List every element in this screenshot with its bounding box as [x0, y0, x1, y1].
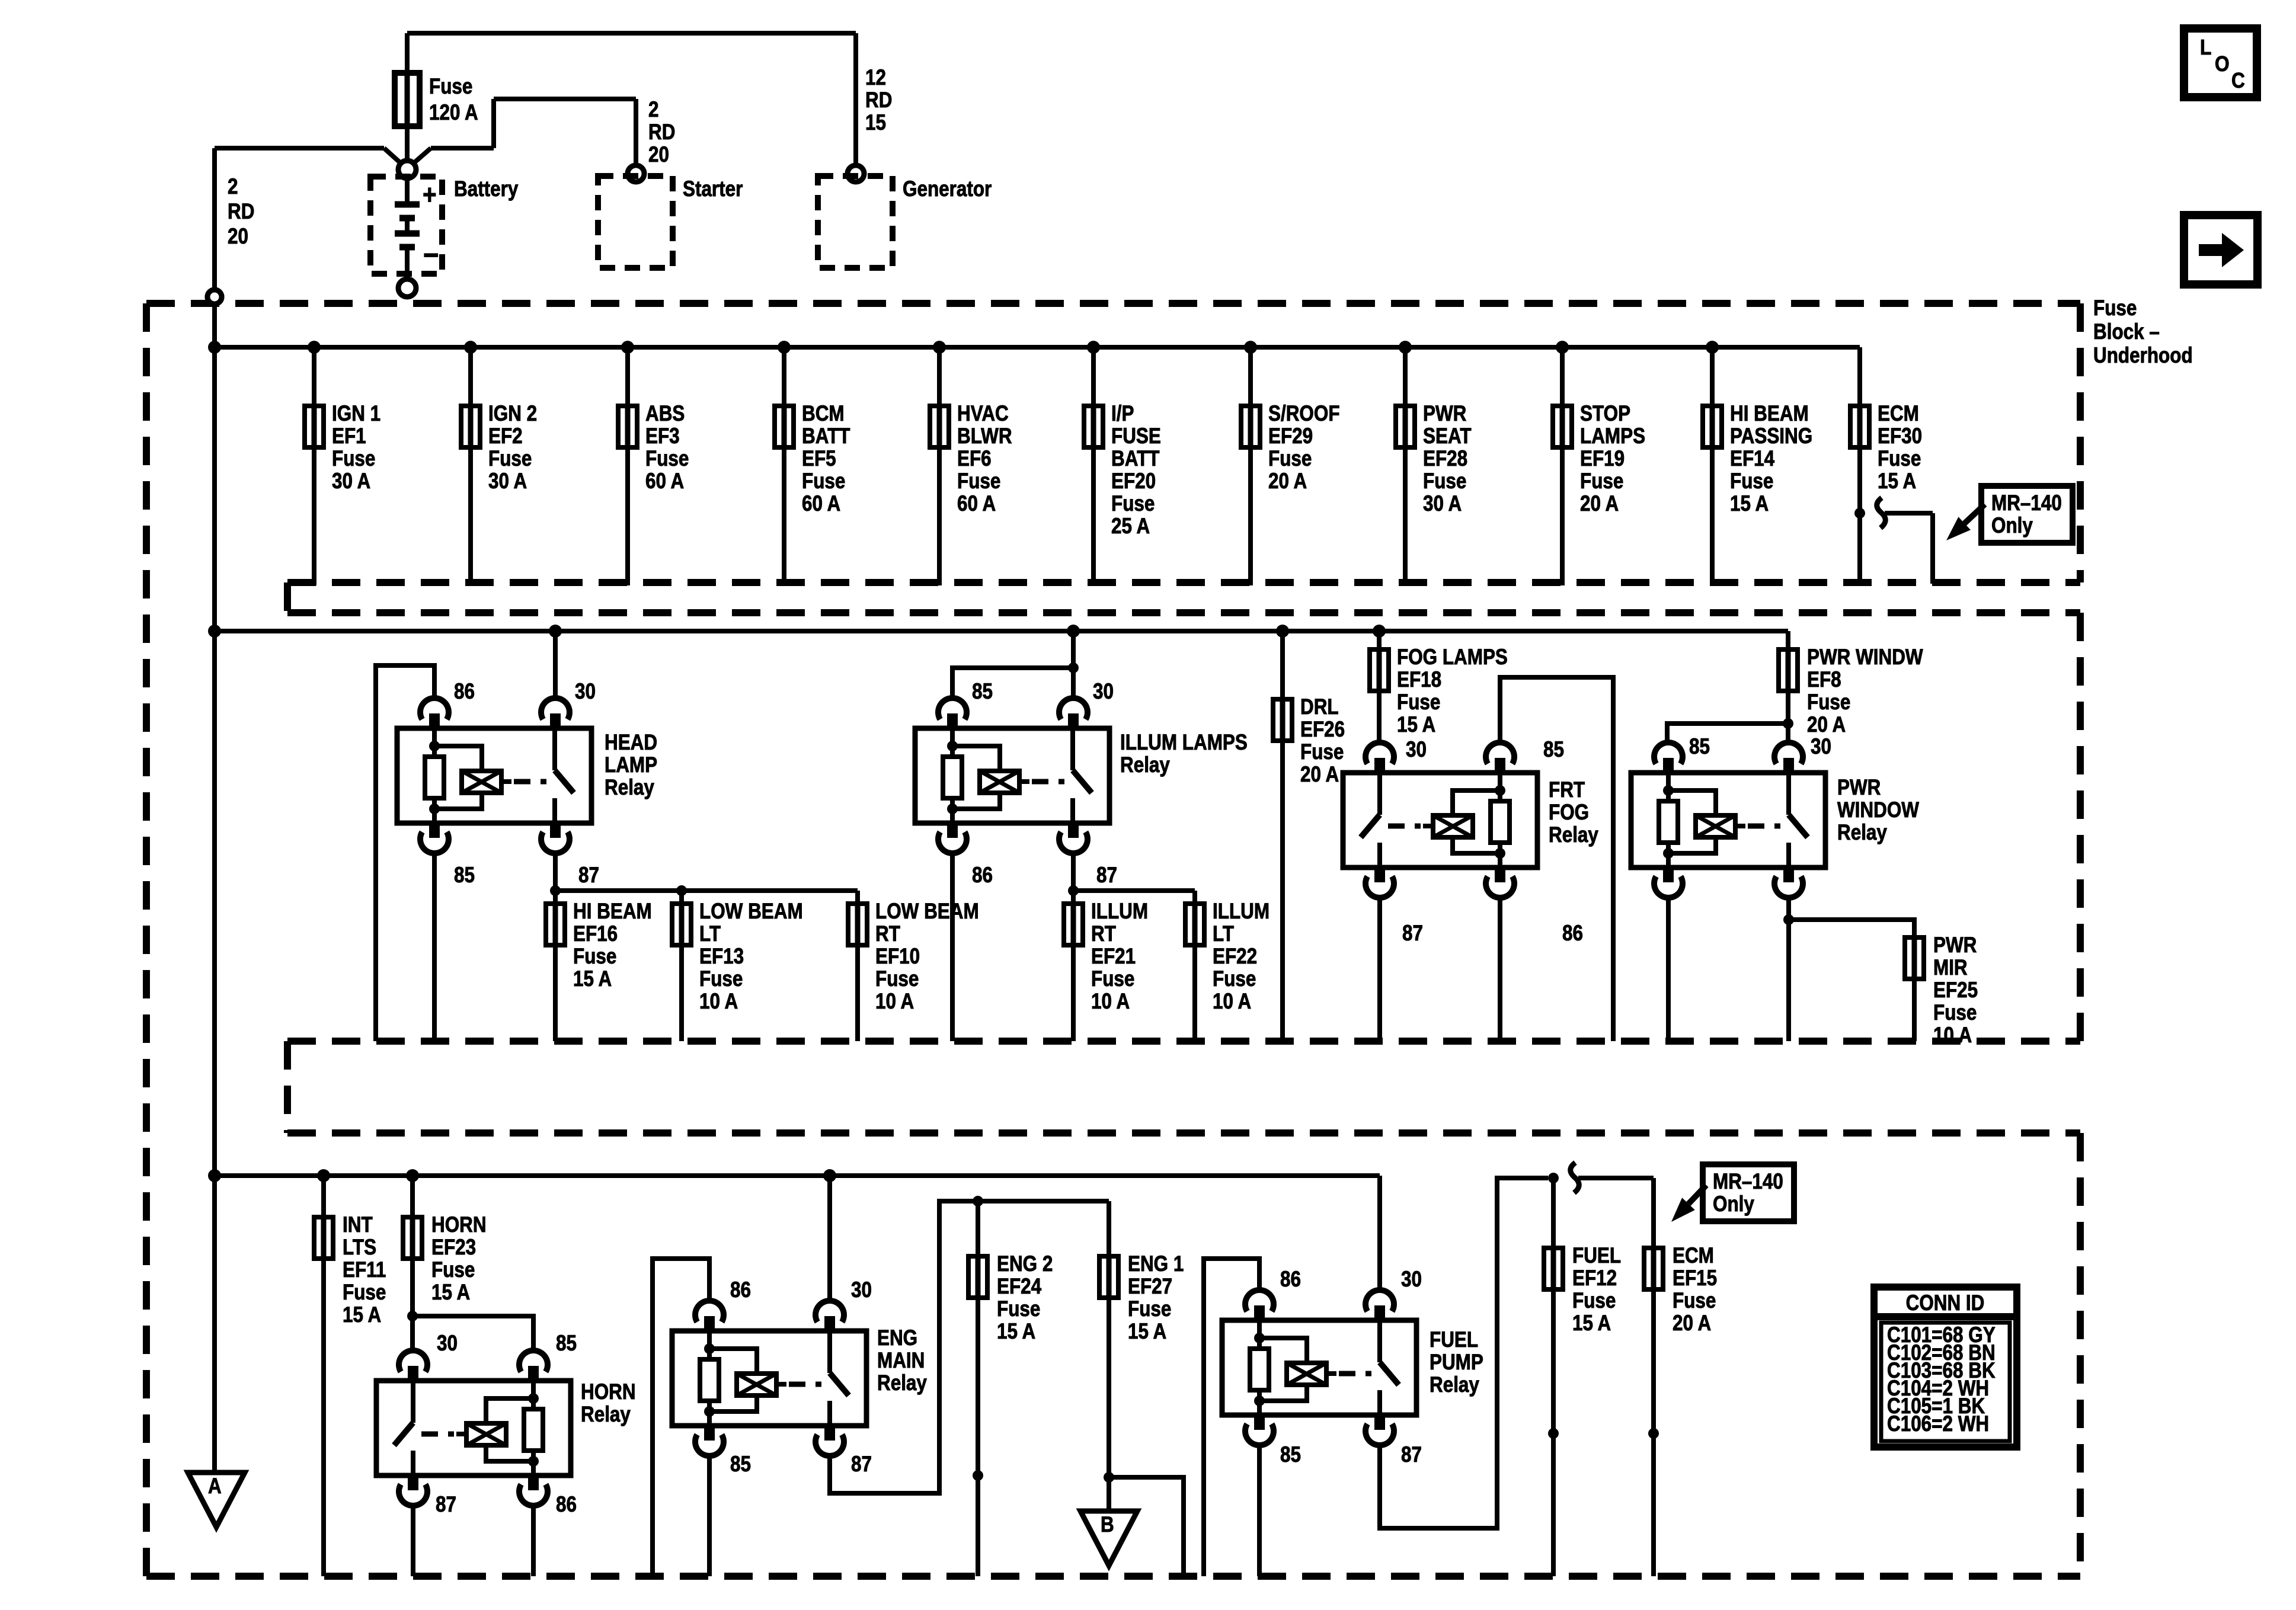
- svg-text:ECM: ECM: [1878, 402, 1919, 426]
- svg-text:Fuse: Fuse: [431, 1258, 475, 1282]
- svg-text:EF18: EF18: [1397, 668, 1441, 692]
- svg-text:ENG: ENG: [877, 1326, 917, 1350]
- svg-text:25 A: 25 A: [1111, 514, 1150, 539]
- svg-text:Battery: Battery: [454, 177, 518, 201]
- svg-text:15 A: 15 A: [431, 1281, 470, 1305]
- svg-text:ILLUM LAMPS: ILLUM LAMPS: [1120, 731, 1248, 755]
- svg-text:IGN 2: IGN 2: [488, 402, 537, 426]
- svg-text:EF30: EF30: [1878, 424, 1922, 449]
- svg-text:Block –: Block –: [2093, 320, 2160, 344]
- svg-text:87: 87: [1096, 863, 1117, 888]
- svg-text:EF23: EF23: [431, 1235, 476, 1260]
- svg-text:RD: RD: [865, 88, 892, 113]
- svg-text:HEAD: HEAD: [605, 731, 657, 755]
- svg-text:Fuse: Fuse: [1807, 690, 1850, 715]
- svg-text:PWR: PWR: [1423, 402, 1467, 426]
- svg-text:Relay: Relay: [1120, 753, 1170, 777]
- svg-text:RD: RD: [648, 120, 675, 145]
- svg-text:10 A: 10 A: [1213, 990, 1251, 1014]
- svg-text:BATT: BATT: [1111, 447, 1160, 471]
- svg-text:MR–140: MR–140: [1991, 491, 2062, 516]
- svg-text:15 A: 15 A: [1572, 1311, 1611, 1336]
- svg-text:Starter: Starter: [683, 177, 743, 201]
- svg-text:BCM: BCM: [802, 402, 845, 426]
- svg-text:EF15: EF15: [1673, 1266, 1717, 1291]
- svg-text:30: 30: [1406, 738, 1427, 762]
- svg-text:DRL: DRL: [1300, 695, 1339, 719]
- svg-text:2: 2: [228, 175, 238, 199]
- svg-text:EF20: EF20: [1111, 469, 1156, 494]
- svg-text:2: 2: [648, 98, 658, 122]
- svg-text:Fuse: Fuse: [429, 75, 472, 99]
- svg-text:PWR: PWR: [1933, 933, 1977, 958]
- svg-text:Underhood: Underhood: [2093, 344, 2193, 368]
- svg-text:Only: Only: [1991, 514, 2033, 538]
- svg-text:FUEL: FUEL: [1430, 1328, 1478, 1352]
- svg-text:Relay: Relay: [1549, 823, 1598, 847]
- svg-text:86: 86: [730, 1278, 751, 1302]
- svg-text:EF14: EF14: [1730, 447, 1774, 471]
- svg-text:A: A: [208, 1474, 222, 1499]
- svg-text:C106=2 WH: C106=2 WH: [1887, 1412, 1989, 1436]
- svg-text:Fuse: Fuse: [1397, 690, 1440, 715]
- svg-text:ENG 1: ENG 1: [1128, 1252, 1184, 1276]
- svg-text:FUSE: FUSE: [1111, 424, 1161, 449]
- svg-text:ILLUM: ILLUM: [1213, 900, 1269, 924]
- svg-text:Relay: Relay: [877, 1371, 927, 1395]
- svg-text:FOG LAMPS: FOG LAMPS: [1397, 645, 1508, 670]
- svg-text:BLWR: BLWR: [957, 424, 1012, 449]
- svg-text:20 A: 20 A: [1807, 713, 1846, 737]
- svg-text:ILLUM: ILLUM: [1091, 900, 1148, 924]
- svg-text:LAMP: LAMP: [605, 753, 657, 777]
- svg-text:120 A: 120 A: [429, 101, 478, 125]
- svg-text:LTS: LTS: [343, 1235, 376, 1260]
- svg-text:EF22: EF22: [1213, 945, 1257, 969]
- svg-text:FOG: FOG: [1549, 801, 1589, 825]
- svg-text:EF12: EF12: [1572, 1266, 1617, 1291]
- svg-text:RD: RD: [228, 200, 254, 224]
- svg-text:EF28: EF28: [1423, 447, 1467, 471]
- svg-text:SEAT: SEAT: [1423, 424, 1472, 449]
- svg-text:10 A: 10 A: [699, 990, 738, 1014]
- svg-text:EF29: EF29: [1268, 424, 1313, 449]
- svg-text:PWR WINDW: PWR WINDW: [1807, 645, 1923, 670]
- svg-text:PUMP: PUMP: [1430, 1350, 1483, 1375]
- svg-text:EF2: EF2: [488, 424, 523, 449]
- svg-text:10 A: 10 A: [1091, 990, 1130, 1014]
- svg-text:30: 30: [1093, 680, 1114, 704]
- svg-text:MIR: MIR: [1933, 956, 1968, 980]
- svg-text:Fuse: Fuse: [1730, 469, 1773, 494]
- svg-text:30: 30: [575, 680, 596, 704]
- svg-text:Fuse: Fuse: [699, 967, 743, 991]
- svg-text:30: 30: [437, 1331, 458, 1356]
- svg-text:HI BEAM: HI BEAM: [573, 900, 652, 924]
- svg-text:EF10: EF10: [875, 945, 920, 969]
- svg-text:30: 30: [1811, 735, 1831, 759]
- svg-text:Fuse: Fuse: [957, 469, 1000, 494]
- svg-text:Fuse: Fuse: [1572, 1289, 1616, 1313]
- svg-text:S/ROOF: S/ROOF: [1268, 402, 1340, 426]
- svg-text:Fuse: Fuse: [1213, 967, 1256, 991]
- svg-text:60 A: 60 A: [645, 469, 684, 494]
- svg-text:Relay: Relay: [605, 776, 654, 800]
- svg-text:85: 85: [1280, 1443, 1301, 1467]
- svg-text:20: 20: [228, 225, 248, 249]
- svg-text:ABS: ABS: [645, 402, 685, 426]
- svg-text:85: 85: [1543, 738, 1564, 762]
- svg-text:HORN: HORN: [581, 1380, 636, 1404]
- svg-text:87: 87: [436, 1493, 456, 1517]
- svg-text:86: 86: [1280, 1267, 1301, 1292]
- svg-text:Fuse: Fuse: [1111, 492, 1155, 516]
- svg-text:Generator: Generator: [903, 177, 992, 201]
- svg-text:30 A: 30 A: [332, 469, 370, 494]
- svg-text:EF19: EF19: [1580, 447, 1625, 471]
- svg-text:86: 86: [1562, 921, 1583, 946]
- svg-text:15 A: 15 A: [573, 967, 612, 991]
- svg-text:LT: LT: [1213, 922, 1234, 946]
- svg-text:EF8: EF8: [1807, 668, 1841, 692]
- svg-text:Fuse: Fuse: [1580, 469, 1623, 494]
- svg-text:Fuse: Fuse: [802, 469, 845, 494]
- svg-text:LAMPS: LAMPS: [1580, 424, 1645, 449]
- svg-text:O: O: [2215, 52, 2230, 76]
- svg-text:10 A: 10 A: [1933, 1023, 1972, 1048]
- svg-text:87: 87: [1401, 1443, 1422, 1467]
- svg-text:20 A: 20 A: [1268, 469, 1307, 494]
- svg-text:−: −: [423, 238, 439, 272]
- svg-text:STOP: STOP: [1580, 402, 1630, 426]
- svg-text:PWR: PWR: [1837, 776, 1881, 800]
- svg-text:HVAC: HVAC: [957, 402, 1009, 426]
- svg-text:60 A: 60 A: [957, 492, 996, 516]
- svg-text:15 A: 15 A: [1878, 469, 1916, 494]
- svg-text:85: 85: [1689, 735, 1710, 759]
- svg-text:30: 30: [851, 1278, 872, 1302]
- svg-text:15 A: 15 A: [1128, 1320, 1166, 1344]
- svg-text:Fuse: Fuse: [343, 1281, 386, 1305]
- svg-text:Fuse: Fuse: [1673, 1289, 1716, 1313]
- svg-text:Fuse: Fuse: [1128, 1297, 1171, 1321]
- svg-text:85: 85: [972, 680, 993, 704]
- svg-text:B: B: [1101, 1513, 1114, 1537]
- svg-text:I/P: I/P: [1111, 402, 1134, 426]
- svg-text:15: 15: [865, 111, 886, 135]
- svg-text:Only: Only: [1713, 1192, 1754, 1217]
- svg-text:85: 85: [556, 1331, 577, 1356]
- svg-text:15 A: 15 A: [1730, 492, 1769, 516]
- svg-text:10 A: 10 A: [875, 990, 914, 1014]
- svg-text:87: 87: [578, 863, 599, 888]
- svg-text:MR–140: MR–140: [1713, 1170, 1783, 1194]
- svg-text:86: 86: [454, 680, 475, 704]
- svg-text:15 A: 15 A: [343, 1303, 381, 1327]
- svg-text:EF25: EF25: [1933, 978, 1978, 1003]
- svg-text:Relay: Relay: [581, 1403, 631, 1427]
- svg-text:FRT: FRT: [1549, 778, 1585, 802]
- svg-text:87: 87: [1402, 921, 1423, 946]
- svg-text:87: 87: [851, 1452, 872, 1477]
- svg-text:20: 20: [648, 143, 669, 167]
- svg-text:30 A: 30 A: [488, 469, 527, 494]
- svg-text:12: 12: [865, 66, 886, 90]
- svg-text:Fuse: Fuse: [488, 447, 532, 471]
- svg-text:FUEL: FUEL: [1572, 1244, 1621, 1268]
- svg-text:Fuse: Fuse: [1423, 469, 1466, 494]
- svg-text:IGN 1: IGN 1: [332, 402, 380, 426]
- svg-text:HORN: HORN: [431, 1213, 487, 1237]
- svg-text:15 A: 15 A: [1397, 713, 1435, 737]
- svg-text:20 A: 20 A: [1580, 492, 1619, 516]
- svg-text:Fuse: Fuse: [1300, 740, 1344, 764]
- svg-text:Fuse: Fuse: [875, 967, 919, 991]
- svg-text:Fuse: Fuse: [1091, 967, 1134, 991]
- svg-text:C: C: [2231, 69, 2245, 92]
- svg-text:Fuse: Fuse: [1878, 447, 1921, 471]
- svg-text:Relay: Relay: [1837, 821, 1887, 845]
- svg-text:Fuse: Fuse: [645, 447, 689, 471]
- svg-text:86: 86: [972, 863, 993, 888]
- svg-text:20 A: 20 A: [1673, 1311, 1711, 1336]
- svg-text:EF16: EF16: [573, 922, 618, 946]
- svg-text:Fuse: Fuse: [1268, 447, 1312, 471]
- svg-text:EF3: EF3: [645, 424, 680, 449]
- svg-text:Relay: Relay: [1430, 1373, 1479, 1397]
- svg-text:ENG 2: ENG 2: [997, 1252, 1053, 1276]
- svg-text:EF1: EF1: [332, 424, 366, 449]
- svg-text:Fuse: Fuse: [997, 1297, 1040, 1321]
- svg-text:15 A: 15 A: [997, 1320, 1035, 1344]
- svg-text:EF24: EF24: [997, 1275, 1041, 1299]
- svg-text:86: 86: [556, 1493, 577, 1517]
- svg-text:EF27: EF27: [1128, 1275, 1172, 1299]
- svg-text:EF11: EF11: [343, 1258, 386, 1282]
- svg-text:PASSING: PASSING: [1730, 424, 1812, 449]
- svg-text:85: 85: [454, 863, 475, 888]
- svg-text:MAIN: MAIN: [877, 1349, 925, 1373]
- svg-text:30: 30: [1401, 1267, 1422, 1292]
- svg-text:BATT: BATT: [802, 424, 850, 449]
- svg-text:WINDOW: WINDOW: [1837, 798, 1920, 822]
- svg-text:HI BEAM: HI BEAM: [1730, 402, 1809, 426]
- svg-text:Fuse: Fuse: [332, 447, 375, 471]
- svg-text:L: L: [2200, 36, 2211, 59]
- svg-text:LT: LT: [699, 922, 721, 946]
- svg-text:30 A: 30 A: [1423, 492, 1462, 516]
- svg-text:EF26: EF26: [1300, 718, 1345, 742]
- svg-text:EF5: EF5: [802, 447, 836, 471]
- svg-text:Fuse: Fuse: [573, 945, 616, 969]
- svg-text:Fuse: Fuse: [1933, 1001, 1977, 1025]
- svg-text:LOW BEAM: LOW BEAM: [875, 900, 979, 924]
- svg-text:LOW BEAM: LOW BEAM: [699, 900, 803, 924]
- svg-text:EF6: EF6: [957, 447, 992, 471]
- svg-text:85: 85: [730, 1452, 751, 1477]
- svg-text:RT: RT: [1091, 922, 1116, 946]
- svg-text:+: +: [423, 180, 437, 210]
- svg-text:INT: INT: [343, 1213, 373, 1237]
- svg-text:20 A: 20 A: [1300, 763, 1339, 787]
- svg-text:EF13: EF13: [699, 945, 744, 969]
- svg-text:60 A: 60 A: [802, 492, 840, 516]
- svg-text:ECM: ECM: [1673, 1244, 1714, 1268]
- svg-text:EF21: EF21: [1091, 945, 1136, 969]
- svg-text:RT: RT: [875, 922, 900, 946]
- svg-text:CONN ID: CONN ID: [1906, 1291, 1985, 1315]
- svg-text:Fuse: Fuse: [2093, 296, 2137, 321]
